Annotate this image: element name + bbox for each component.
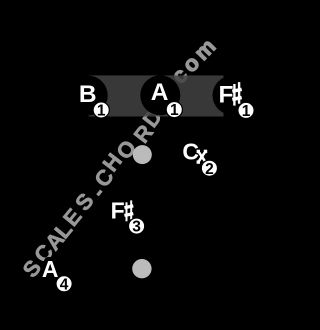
svg-text:F: F — [111, 198, 125, 224]
finger badge 1 on F# — [238, 102, 254, 120]
svg-text:B: B — [79, 81, 97, 108]
svg-text:A: A — [151, 79, 169, 106]
svg-text:2: 2 — [205, 161, 214, 178]
svg-text:1: 1 — [170, 102, 179, 119]
double sharp x of Cx — [197, 150, 208, 164]
scale dot 2 — [132, 259, 151, 278]
finger badge 2 on Cx — [201, 160, 217, 178]
note circle A — [140, 75, 180, 115]
scale dot 1 — [133, 145, 152, 164]
svg-text:1: 1 — [242, 103, 251, 120]
finger badge 1 on A — [166, 102, 182, 120]
svg-text:3: 3 — [132, 219, 141, 236]
finger badge 3 on F# — [129, 218, 145, 236]
svg-text:C: C — [182, 139, 199, 165]
note circle B — [68, 76, 108, 116]
sharp sign of top F# — [232, 82, 242, 106]
svg-text:F: F — [219, 82, 234, 109]
sharp sign of mid F# — [124, 200, 134, 221]
barre bar fret 1 — [89, 75, 224, 116]
watermark SCALES-CHORDS.com — [18, 181, 110, 282]
finger badge 4 on A — [56, 276, 72, 294]
svg-text:1: 1 — [97, 103, 106, 120]
note circle F# — [213, 76, 252, 115]
svg-text:4: 4 — [60, 276, 69, 293]
finger badge 1 on B — [93, 102, 109, 120]
svg-text:A: A — [42, 256, 59, 282]
